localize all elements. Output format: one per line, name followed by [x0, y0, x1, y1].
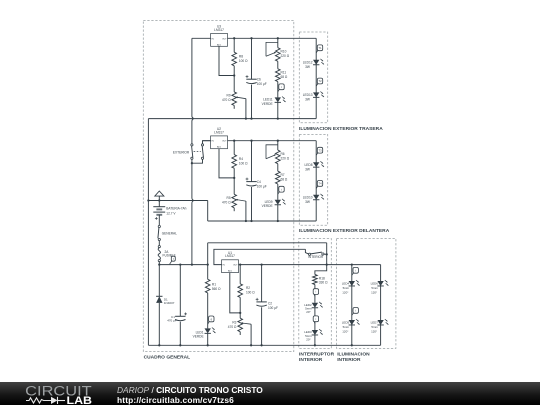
op-amp regulator U3: [211, 34, 228, 47]
node junction: [260, 263, 262, 265]
LED LED6 5mm 120°: [377, 281, 383, 286]
LED LED4 5mm 120°: [349, 281, 355, 286]
node junction: [326, 263, 328, 265]
LED LED8 3W: [313, 162, 319, 167]
LED LED5 5mm 120°: [349, 320, 355, 325]
node junction: [179, 344, 181, 346]
svg-text:R3: R3: [232, 321, 236, 325]
svg-text:ADJ: ADJ: [217, 43, 221, 46]
LED LED10 3W: [313, 195, 319, 200]
wire: [203, 141, 212, 144]
node junction: [233, 74, 235, 76]
svg-text:INTERIOR: INTERIOR: [299, 357, 323, 363]
dashed box INTERRUPTOR INTERIOR: [299, 239, 332, 349]
svg-text:OUT: OUT: [222, 141, 227, 143]
node flag T1: [316, 50, 318, 53]
wire: [277, 82, 279, 98]
node flag i1: [313, 294, 316, 297]
wire: [158, 241, 160, 246]
node junction: [233, 177, 235, 179]
svg-text:ILUMINACION EXTERIOR DELANTERA: ILUMINACION EXTERIOR DELANTERA: [299, 228, 390, 234]
svg-text:LAB: LAB: [67, 395, 93, 405]
svg-text:100 Ω: 100 Ω: [239, 59, 248, 63]
svg-text:LED5: LED5: [342, 320, 350, 324]
svg-text:ILUMINACION EXTERIOR TRASERA: ILUMINACION EXTERIOR TRASERA: [299, 126, 383, 132]
svg-text:20°: 20°: [306, 337, 310, 341]
fuse F1 2A FUSIBLE: [158, 246, 160, 248]
svg-text:OUT: OUT: [222, 38, 227, 40]
svg-text:LM317: LM317: [225, 254, 235, 258]
svg-text:LED4: LED4: [342, 281, 350, 285]
wire: [245, 201, 247, 221]
svg-text:VERDE: VERDE: [262, 102, 273, 106]
svg-text:LM317: LM317: [214, 130, 224, 134]
svg-text:OUT: OUT: [233, 265, 238, 267]
LED LED7 5mm 120°: [377, 320, 383, 325]
node junction: [250, 117, 252, 119]
potentiometer R6 220 Ω: [277, 141, 279, 150]
wire: [233, 66, 235, 92]
wire: [191, 163, 193, 199]
svg-text:EXTERIOR: EXTERIOR: [173, 151, 190, 155]
power flag: [155, 191, 164, 196]
switch SW INTERIOR: [309, 253, 311, 255]
svg-text:R1: R1: [212, 282, 216, 286]
wire: [192, 37, 211, 39]
wire: [239, 264, 381, 266]
wire: [305, 249, 308, 254]
svg-text:330 Ω: 330 Ω: [319, 281, 328, 285]
svg-text:INTERIOR: INTERIOR: [308, 255, 324, 259]
potentiometer R5 470 Ω: [232, 194, 237, 208]
svg-text:220 Ω: 220 Ω: [281, 157, 290, 161]
svg-text:LED8: LED8: [305, 163, 313, 167]
wire: [351, 265, 353, 346]
node junction: [250, 140, 252, 142]
node flag T4: [316, 186, 318, 189]
wire: [191, 38, 193, 117]
svg-text:220 Ω: 220 Ω: [281, 54, 290, 58]
node junction: [250, 37, 252, 39]
svg-text:R5: R5: [227, 196, 231, 200]
node junction: [233, 140, 235, 142]
svg-text:120°: 120°: [342, 290, 348, 294]
wire: [203, 140, 211, 142]
LED LED9 VERDE: [275, 200, 281, 205]
node flag T3: [316, 152, 318, 155]
wire: [208, 242, 327, 244]
node junction: [277, 220, 279, 222]
resistor R8 100 Ω: [233, 38, 235, 52]
wire: [250, 324, 252, 345]
gang link: [194, 151, 201, 153]
svg-text:C2: C2: [268, 301, 272, 305]
capacitor C6 100 µF: [251, 38, 253, 79]
dashed box ILUMINACION INTERIOR: [337, 239, 396, 349]
svg-text:VERDE: VERDE: [193, 335, 204, 339]
svg-text:20°: 20°: [306, 310, 310, 314]
svg-text:ILUMINACION: ILUMINACION: [337, 351, 370, 357]
wire: [147, 119, 149, 346]
svg-text:R10: R10: [281, 50, 287, 54]
node junction: [158, 344, 160, 346]
svg-text:12.7 V: 12.7 V: [166, 212, 176, 216]
wire: [315, 141, 317, 221]
node flag T2: [316, 83, 318, 86]
CircuitLab logo: [25, 383, 93, 405]
svg-text:LED6: LED6: [371, 281, 379, 285]
capacitor C2 100 µF: [261, 265, 263, 302]
node junction: [277, 37, 279, 39]
op-amp regulator U2: [211, 136, 228, 149]
svg-text:CUADRO GENERAL: CUADRO GENERAL: [144, 354, 191, 360]
node flag indicator: [278, 191, 280, 194]
svg-text:120°: 120°: [342, 329, 348, 333]
node junction: [245, 220, 247, 222]
node junction: [277, 140, 279, 142]
wire: [214, 249, 306, 264]
node junction: [239, 263, 241, 265]
svg-text:LED13: LED13: [303, 93, 313, 97]
svg-text:68 Ω: 68 Ω: [281, 75, 288, 79]
wire: [314, 308, 316, 330]
node junction: [326, 253, 328, 255]
svg-text:R6: R6: [281, 152, 285, 156]
svg-text:5mm: 5mm: [371, 325, 378, 329]
resistor R4 100 Ω: [233, 141, 235, 155]
op-amp regulator U1: [222, 260, 239, 273]
wire: [228, 37, 317, 39]
wire hop: [192, 199, 193, 202]
node junction: [239, 312, 241, 314]
LED LED12 3W: [313, 60, 319, 65]
node junction: [207, 263, 209, 265]
wire: [207, 201, 209, 222]
wire: [219, 149, 234, 178]
dashed box ILUMINACION EXTERIOR DELANTERA: [299, 134, 327, 225]
LED LED11 VERDE: [275, 97, 281, 102]
wire: [191, 159, 193, 163]
wire: [159, 264, 207, 266]
wire: [314, 335, 316, 345]
node junction: [314, 344, 316, 346]
svg-text:68 Ω: 68 Ω: [281, 177, 288, 181]
wire: [245, 99, 247, 119]
potentiometer R9 470 Ω: [232, 92, 237, 106]
svg-text:C6: C6: [257, 77, 261, 81]
LED LED3 5mm 20°: [312, 330, 318, 335]
node flag n1: [352, 272, 354, 275]
svg-text:3W: 3W: [305, 167, 310, 171]
svg-text:GENERAL: GENERAL: [162, 231, 177, 235]
switch SW EXTERIOR pole B: [201, 144, 203, 146]
potentiometer R3 470 Ω: [238, 318, 243, 332]
diode D1 1N4007: [158, 265, 160, 297]
wire: [239, 297, 241, 318]
potentiometer R10 220 Ω: [277, 38, 279, 47]
svg-text:ADJ: ADJ: [228, 270, 232, 273]
wire: [148, 118, 316, 120]
svg-text:3W: 3W: [305, 65, 310, 69]
resistor R1 560 Ω: [207, 265, 209, 280]
footer url: [117, 395, 234, 405]
wire: [277, 61, 279, 69]
node junction: [158, 263, 160, 265]
wire: [314, 285, 316, 303]
svg-text:560 Ω: 560 Ω: [212, 287, 221, 291]
svg-text:R2: R2: [246, 286, 250, 290]
resistor R11 68 Ω: [276, 69, 281, 82]
LED LED2 5mm 20°: [312, 303, 318, 308]
wire: [228, 140, 317, 142]
wire: [148, 200, 207, 202]
node junction: [207, 344, 209, 346]
node junction: [191, 263, 193, 265]
dashed box ILUMINACION EXTERIOR TRASERA: [299, 32, 327, 123]
node junction: [245, 117, 247, 119]
node junction: [233, 37, 235, 39]
svg-text:100 Ω: 100 Ω: [239, 161, 248, 165]
node junction: [191, 162, 193, 164]
svg-text:3W: 3W: [305, 200, 310, 204]
wire: [277, 205, 279, 221]
switch SW GENERAL: [158, 225, 160, 227]
wire: [207, 333, 209, 345]
resistor R2 100 Ω: [239, 265, 241, 284]
node junction: [260, 344, 262, 346]
svg-text:3W: 3W: [305, 98, 310, 102]
wire: [233, 168, 235, 194]
capacitor C4 100 µF: [251, 141, 253, 182]
wire: [326, 243, 328, 255]
svg-text:120°: 120°: [371, 329, 377, 333]
svg-text:5mm: 5mm: [343, 325, 350, 329]
svg-text:470 Ω: 470 Ω: [222, 200, 231, 204]
node junction: [351, 344, 353, 346]
svg-text:470 Ω: 470 Ω: [222, 98, 231, 102]
wire hop: [192, 117, 193, 120]
node junction: [250, 344, 252, 346]
node junction: [179, 263, 181, 265]
svg-text:R11: R11: [281, 70, 287, 74]
node flag fuse output: [170, 260, 173, 264]
svg-text:R4: R4: [239, 157, 243, 161]
svg-text:BATERIA-7Ah: BATERIA-7Ah: [166, 207, 186, 211]
node junction: [250, 220, 252, 222]
resistor R7 68 Ω: [276, 171, 281, 184]
LED LED1 VERDE: [205, 328, 211, 333]
wire: [315, 38, 317, 118]
svg-text:LM317: LM317: [214, 28, 224, 32]
resistor R18 330 Ω: [313, 275, 318, 285]
wire: [207, 293, 209, 329]
dashed box CUADRO GENERAL: [143, 20, 293, 351]
node junction: [158, 199, 160, 201]
switch SW EXTERIOR pole A: [191, 144, 193, 146]
node flag LED1 node: [208, 321, 210, 324]
wire: [315, 265, 327, 275]
svg-text:100 µF: 100 µF: [257, 82, 267, 86]
wire: [208, 220, 317, 222]
node flag indicator: [278, 89, 280, 92]
battery V1 BATERIA-7Ah: [158, 201, 160, 207]
capacitor C1 470 µF: [179, 265, 181, 317]
wire: [326, 254, 328, 264]
svg-text:100 µF: 100 µF: [268, 306, 278, 310]
svg-text:5mm: 5mm: [371, 286, 378, 290]
node flag n2: [352, 313, 354, 316]
svg-text:470 Ω: 470 Ω: [228, 325, 237, 329]
wire: [277, 102, 279, 118]
wire: [158, 262, 160, 265]
svg-text:INTERIOR: INTERIOR: [337, 357, 361, 363]
svg-text:VERDE: VERDE: [262, 204, 273, 208]
svg-text:LED10: LED10: [303, 195, 313, 199]
wire: [380, 265, 382, 346]
wire: [277, 184, 279, 200]
svg-text:ADJ: ADJ: [217, 146, 221, 149]
wire: [277, 164, 279, 172]
node flag i2: [313, 321, 316, 324]
svg-text:100 µF: 100 µF: [257, 184, 267, 188]
svg-text:LED7: LED7: [371, 320, 379, 324]
svg-text:LED12: LED12: [303, 60, 313, 64]
wire: [148, 344, 380, 346]
wire: [219, 46, 234, 75]
svg-text:R9: R9: [227, 94, 231, 98]
LED LED13 3W: [313, 92, 319, 97]
svg-text:100 Ω: 100 Ω: [246, 290, 255, 294]
svg-text:INTERRUPTOR: INTERRUPTOR: [299, 351, 335, 357]
node junction: [351, 263, 353, 265]
node junction: [147, 199, 149, 201]
svg-text:5mm: 5mm: [343, 286, 350, 290]
svg-text:1N4007: 1N4007: [164, 301, 175, 305]
wire: [230, 273, 240, 313]
svg-text:120°: 120°: [371, 290, 377, 294]
svg-text:R8: R8: [239, 54, 243, 58]
svg-text:R7: R7: [281, 173, 285, 177]
svg-text:470 µF: 470 µF: [167, 319, 177, 323]
svg-text:C4: C4: [257, 180, 261, 184]
svg-text:R18: R18: [319, 276, 325, 280]
node junction: [277, 117, 279, 119]
footer title: [117, 385, 263, 395]
wire hop: [192, 117, 193, 120]
